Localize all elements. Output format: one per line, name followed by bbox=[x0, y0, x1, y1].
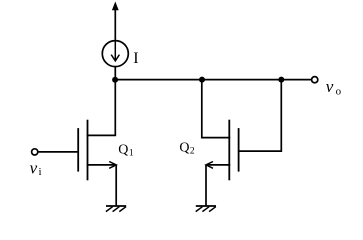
svg-text:v: v bbox=[326, 77, 334, 96]
svg-text:1: 1 bbox=[129, 149, 134, 159]
terminal vi bbox=[32, 149, 38, 155]
wire node C to Q2 gate bbox=[239, 80, 281, 152]
wire output bus bbox=[115, 79, 311, 81]
current source I bbox=[102, 41, 128, 67]
svg-text:I: I bbox=[133, 50, 138, 67]
svg-text:Q: Q bbox=[179, 141, 189, 156]
svg-text:i: i bbox=[39, 166, 42, 178]
wire Q1 source to ground bbox=[115, 165, 117, 206]
transistor Q1 bbox=[78, 120, 116, 181]
svg-text:o: o bbox=[336, 86, 342, 98]
transistor Q2 bbox=[206, 120, 239, 181]
ground (Q2) bbox=[196, 206, 216, 212]
svg-text:2: 2 bbox=[190, 147, 195, 157]
wire input to Q1 gate bbox=[38, 151, 77, 153]
node A junction dot bbox=[112, 77, 118, 83]
wire current source to node A bbox=[114, 67, 116, 80]
node B junction dot bbox=[199, 77, 205, 83]
supply arrow bbox=[112, 2, 119, 40]
svg-text:Q: Q bbox=[118, 143, 128, 158]
wire node A to Q1 drain bbox=[114, 80, 116, 136]
ground (Q1) bbox=[106, 206, 126, 212]
terminal vo bbox=[312, 77, 318, 83]
svg-text:v: v bbox=[30, 158, 38, 177]
node C junction dot bbox=[278, 77, 284, 83]
wire node B to Q2 drain bbox=[202, 80, 230, 138]
wire Q2 source to ground bbox=[205, 165, 207, 206]
